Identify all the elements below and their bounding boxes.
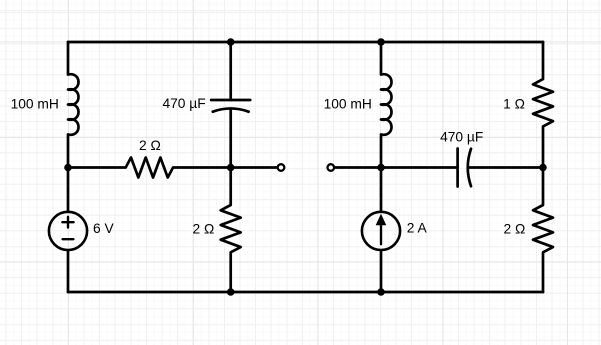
svg-text:470 µF: 470 µF (440, 130, 483, 145)
svg-text:470 µF: 470 µF (162, 96, 205, 111)
svg-text:100 mH: 100 mH (324, 96, 372, 111)
svg-text:100 mH: 100 mH (11, 96, 59, 111)
svg-text:2 Ω: 2 Ω (503, 222, 525, 237)
svg-text:2 Ω: 2 Ω (139, 138, 161, 153)
svg-text:1 Ω: 1 Ω (503, 97, 525, 112)
svg-text:2 Ω: 2 Ω (192, 222, 214, 237)
svg-text:6 V: 6 V (93, 221, 115, 236)
svg-text:2 A: 2 A (407, 221, 428, 236)
